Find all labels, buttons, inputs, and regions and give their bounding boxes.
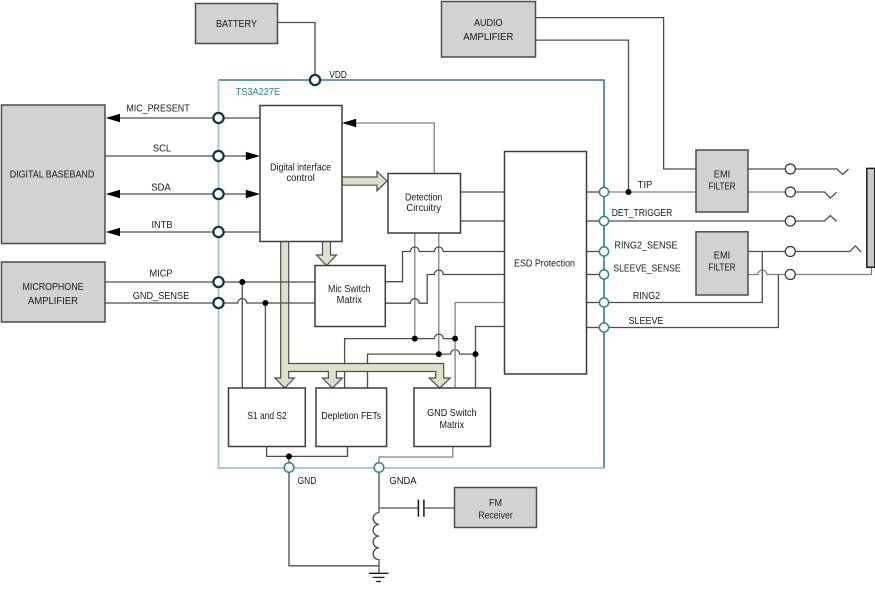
block digital interface control U1 [260,106,342,242]
thick arrow bus DIC to S1, depletion FETs, GND switch matrix [275,241,450,389]
wire GND drop to port [288,456,290,462]
port DET_TRIGGER [599,216,608,225]
wire node A horizontal (depletion FETs to v3) [345,334,456,388]
wire detection vertical v2 [438,233,440,354]
wire mic switch matrix out2 to ESD SLEEVE_SENSE [385,270,504,303]
wire GND_SENSE vertical to S1 [264,303,266,388]
svg-text:Depletion FETs: Depletion FETs [321,410,381,422]
wire INTB [119,231,260,233]
wire v4 ESD SLEEVE to GND switch matrix [476,327,505,389]
svg-text:AMPLIFIER: AMPLIFIER [28,295,78,307]
port GND [284,463,294,473]
arrowhead INTB left [106,228,120,237]
wire detection vertical v1 [414,233,416,339]
wire capacitor right to FM receiver [424,507,455,509]
wire VDD from battery [278,23,316,75]
port TIP [599,187,608,196]
junction node A v1 [412,336,418,342]
wire jack contact 3 finger [795,216,836,222]
svg-text:SLEEVE_SENSE: SLEEVE_SENSE [613,263,680,274]
block S1 and S2 [229,388,306,447]
svg-text:SDA: SDA [151,183,171,194]
svg-text:GND_SENSE: GND_SENSE [133,291,190,302]
wire v3 ESD RING2 to GND switch matrix [455,303,504,389]
jack plug bar [867,168,875,267]
arrowhead MIC_PRESENT left [106,114,120,123]
svg-text:Matrix: Matrix [440,419,465,431]
wire MIC_PRESENT [119,117,260,119]
block BATTERY [196,4,278,44]
block FM RECEIVER [455,488,537,528]
wire jack contact 2 finger [795,192,836,198]
junction node B v4 [473,351,479,357]
junction node B v2 [436,351,442,357]
inductor L1 [373,513,379,574]
wire GND external down [289,473,379,566]
wire SCL [105,155,247,157]
port RING2 [599,298,608,307]
svg-text:FILTER: FILTER [709,181,736,193]
wire node B horizontal (depletion FETs to v4) [368,350,476,388]
jack contact 5 [785,270,795,280]
block EMI FILTER 2 [696,232,748,295]
svg-text:GNDA: GNDA [389,476,416,487]
wire MICP (drawn over bus) [105,281,315,283]
svg-text:AUDIO: AUDIO [474,17,503,29]
wire EMI2 out RING2_SENSE to jack contact [748,251,785,253]
svg-text:BATTERY: BATTERY [216,18,257,30]
wire jack contact 4 finger [795,246,861,252]
svg-text:EMI: EMI [714,250,731,262]
wire SLEEVE [609,275,778,328]
wire ESD stub RING2 [587,302,599,304]
block detection circuitry [388,174,461,234]
svg-text:MIC_PRESENT: MIC_PRESENT [126,104,189,115]
jack contact 3 [785,216,795,226]
port MIC_PRESENT [213,113,223,123]
svg-text:S1 and S2: S1 and S2 [247,410,287,422]
block depletion FETs [316,388,387,447]
wire ESD stub RING2_SENSE [587,251,599,253]
port INTB [213,227,223,237]
ground symbol [369,573,389,581]
svg-text:DET_TRIGGER: DET_TRIGGER [612,208,673,219]
wire MICP vertical to S1 [241,282,243,388]
wire mic switch matrix out1 to ESD RING2_SENSE [385,247,504,282]
jack contact 4 [785,247,795,257]
svg-text:Receiver: Receiver [478,510,513,522]
junction TIP/audio [626,189,632,195]
wire TIP detection to ESD [461,191,505,193]
wire ESD stub SLEEVE [587,327,599,329]
wire ESD stub DET_TRIGGER [587,220,599,222]
wire GNDA down to inductor [378,473,380,513]
port SLEEVE_SENSE [599,270,608,279]
wire S1 ground [267,447,348,457]
wire GND_SENSE with hop (drawn over bus) [105,299,315,304]
port GNDA [374,463,384,473]
svg-text:AMPLIFIER: AMPLIFIER [463,31,513,43]
wire DET_TRIGGER to jack contact [609,220,785,222]
port MICP [213,277,223,287]
svg-text:VDD: VDD [329,70,347,81]
block mic switch matrix [315,266,385,327]
arrowhead SDA right [246,190,260,199]
port GND_SENSE [213,298,223,308]
junction MICP [239,279,245,285]
jack contact 2 [785,187,795,197]
wire DET_TRIGGER detection to ESD [461,220,505,222]
wire RING2 [609,252,762,303]
wire capacitor left [379,507,418,509]
svg-text:Matrix: Matrix [337,294,363,306]
wire audio amplifier output 2 to TIP node [536,40,629,192]
svg-text:TIP: TIP [638,180,653,191]
block DIGITAL BASEBAND [2,105,106,244]
thick arrow DIC to mic switch matrix [317,241,337,266]
port RING2_SENSE [599,247,608,256]
svg-text:EMI: EMI [714,169,731,181]
port SCL [213,151,223,161]
svg-text:MICP: MICP [150,269,173,280]
IC boundary box TS3A227E (left/bottom pale edges) [219,80,605,468]
svg-text:INTB: INTB [152,220,173,231]
svg-text:ESD Protection: ESD Protection [514,258,575,270]
wire audio amplifier output 1 to EMI filter 1 [536,18,697,169]
capacitor C1 [418,500,424,517]
thick arrow DIC to detection circuitry [342,172,388,191]
block AUDIO AMPLIFIER [442,2,536,58]
port VDD [310,75,320,85]
svg-text:control: control [286,172,315,184]
block ESD protection [505,152,587,375]
wire ESD stub TIP [587,191,599,193]
wire SDA [119,193,247,195]
svg-text:DIGITAL BASEBAND: DIGITAL BASEBAND [10,169,95,181]
wire jack contact 1 finger [795,169,848,174]
junction node A v3 [452,336,458,342]
port SDA [213,189,223,199]
svg-text:MICROPHONE: MICROPHONE [23,281,84,293]
junction GND [286,453,292,459]
IC boundary box TS3A227E (top/right teal edges) [219,80,605,468]
svg-text:GND Switch: GND Switch [427,407,477,419]
jack contact 1 [785,164,795,174]
port SLEEVE [599,323,608,332]
wire EMI2 out SLEEVE_SENSE with hop over RING2 [748,270,785,275]
block MICROPHONE AMPLIFIER [2,262,106,322]
svg-text:RING2: RING2 [633,291,661,302]
svg-text:RING2_SENSE: RING2_SENSE [615,241,678,252]
block GND switch matrix [414,388,491,447]
block EMI FILTER 1 [696,150,748,212]
wire TIP to EMI filter 1 [609,191,696,193]
svg-text:SCL: SCL [153,143,172,154]
svg-text:SLEEVE: SLEEVE [629,316,664,327]
wire DIC feedback from detection circuitry [355,123,434,174]
junction GND_SENSE [262,300,268,306]
svg-text:Circuitry: Circuitry [406,202,441,214]
wire ESD stub SLEEVE_SENSE [587,274,599,276]
wire SLEEVE_SENSE to jack sleeve contact [795,267,871,275]
wire EMI1 out row1 to jack contact [748,168,785,170]
arrowhead SDA left [106,190,120,199]
arrowhead feedback into DIC [342,119,356,128]
svg-text:FILTER: FILTER [709,262,736,274]
svg-text:TS3A227E: TS3A227E [236,87,281,98]
svg-text:GND: GND [298,476,317,487]
wire EMI1 out row2 to jack contact [748,191,785,193]
arrowhead SCL right [246,152,260,161]
wire GND switch matrix ground [379,447,453,463]
svg-text:FM: FM [489,497,502,509]
